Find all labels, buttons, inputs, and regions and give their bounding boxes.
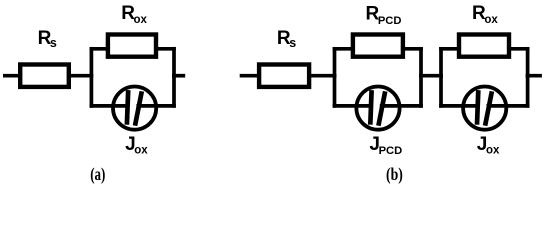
svg-text:RPCD: RPCD [366, 4, 402, 27]
svg-text:Rs: Rs [38, 28, 57, 50]
svg-text:(a): (a) [90, 164, 105, 185]
svg-text:(b): (b) [386, 164, 403, 185]
svg-text:Rox: Rox [472, 3, 498, 26]
svg-text:Jox: Jox [125, 134, 148, 157]
svg-text:JPCD: JPCD [369, 134, 402, 157]
svg-text:Rox: Rox [121, 3, 147, 26]
svg-text:Rs: Rs [277, 28, 296, 50]
svg-text:Jox: Jox [477, 134, 500, 157]
